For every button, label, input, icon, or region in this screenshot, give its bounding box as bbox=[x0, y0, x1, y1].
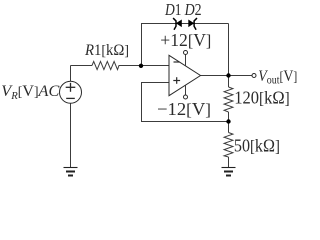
svg-text:VR[V]AC: VR[V]AC bbox=[1, 83, 59, 102]
svg-text:D2: D2 bbox=[184, 0, 202, 19]
svg-text:D1: D1 bbox=[164, 0, 181, 19]
svg-text:+12[V]: +12[V] bbox=[160, 30, 211, 50]
svg-text:120[kΩ]: 120[kΩ] bbox=[234, 87, 290, 107]
svg-text:50[kΩ]: 50[kΩ] bbox=[234, 135, 280, 155]
svg-text:−12[V]: −12[V] bbox=[157, 99, 211, 119]
svg-text:R1[kΩ]: R1[kΩ] bbox=[84, 42, 129, 59]
